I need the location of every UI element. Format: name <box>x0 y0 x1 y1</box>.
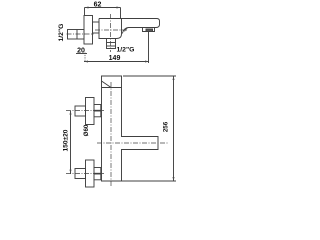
bottom union centerline <box>66 173 104 175</box>
top union centerline <box>66 110 104 112</box>
aerator <box>146 29 153 32</box>
bottom union escutcheon <box>86 160 95 187</box>
centerline arm horizontal <box>97 142 169 144</box>
body column front view with spout arm <box>102 76 159 181</box>
top union pipe <box>75 106 86 116</box>
dim 149 <box>84 32 149 64</box>
escutcheon side view <box>84 16 93 45</box>
bottom union nut <box>94 168 101 180</box>
adapter piece <box>93 22 100 33</box>
spout underside inner curve <box>125 28 129 32</box>
dim 150±20 <box>63 111 72 174</box>
dim 20 <box>76 47 87 61</box>
dim 256 <box>122 76 177 181</box>
svg-text:150±20: 150±20 <box>63 129 70 151</box>
centerline column vertical <box>110 82 112 187</box>
spout side view <box>122 19 160 34</box>
spout nub <box>143 28 155 32</box>
svg-text:Ø60: Ø60 <box>83 124 90 136</box>
svg-text:149: 149 <box>109 55 121 62</box>
outlet below body <box>107 39 116 49</box>
dim 62 line <box>85 7 121 19</box>
svg-text:1/2"G: 1/2"G <box>58 24 65 42</box>
mixer body side view <box>99 19 122 39</box>
union pipe side view <box>68 30 85 40</box>
bottom union pipe <box>75 169 86 179</box>
centerline vertical top view <box>110 14 112 52</box>
handle block top edge <box>102 87 122 89</box>
svg-text:256: 256 <box>163 121 170 132</box>
top union escutcheon <box>86 98 95 125</box>
svg-text:1/2"G: 1/2"G <box>117 47 135 54</box>
centerline body axis top view <box>95 29 127 31</box>
top union nut <box>94 105 101 117</box>
handle diagonal <box>102 81 112 88</box>
centerline pipe axis top view <box>67 33 95 35</box>
